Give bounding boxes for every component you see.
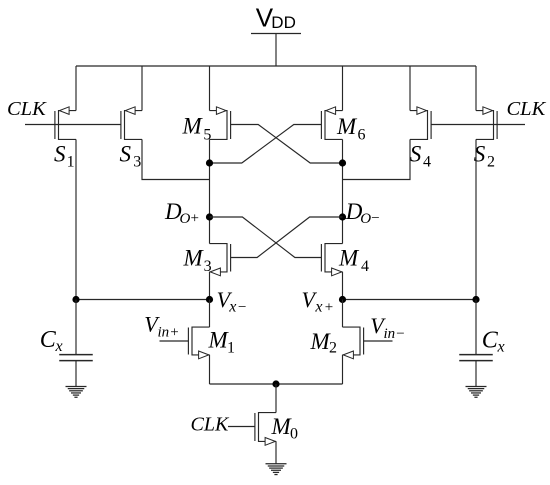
svg-text:O: O [360,211,371,227]
wire M2 source down to tail [342,355,344,384]
wire S1 drain down to Cx node [75,139,77,299]
svg-text:M: M [338,246,360,271]
transistor M1 NMOS [188,327,209,359]
ground below left Cx [66,387,87,398]
node Do+ [206,213,213,220]
label Do+ [164,199,199,227]
svg-text:0: 0 [290,426,298,443]
wire M6 drain / Do- column [342,139,344,243]
svg-text:S: S [120,142,132,167]
label Vin+ [144,312,178,341]
ground below right Cx [466,387,487,398]
svg-text:M: M [336,114,358,139]
wire CLK to S2,S4 gates [431,124,525,126]
svg-text:1: 1 [227,339,235,356]
wire Do+ to M4 gate [210,217,322,258]
node Vx+ junction [339,296,346,303]
wire M5 drain / Do+ column [209,139,211,243]
wire M1 source down to tail [209,355,211,384]
label S2 [474,142,495,171]
wire right cap to ground [475,361,477,387]
label CLK left [7,98,47,120]
transistor M5 PMOS [210,107,231,140]
wire S4 source to rail [409,66,411,111]
wire M3 source down to Vx- [209,272,211,300]
svg-text:in: in [158,325,170,341]
svg-text:4: 4 [423,154,431,171]
wire left Cx node to cap [75,300,77,355]
label CLK right [507,98,547,120]
wire Vin- to M2 gate [364,340,393,342]
ground below M0 [266,464,287,475]
transistor S3 PMOS [121,107,142,140]
wire VDD rail [76,65,476,67]
label M2 [310,329,338,357]
wire tail node [210,383,343,385]
transistor S1 PMOS [55,107,76,140]
wire M5 source to rail [209,66,211,111]
label Vx+ [302,287,334,316]
transistor S2 PMOS [476,107,497,140]
svg-text:+: + [191,211,199,227]
wire Vx+ to right Cx [343,299,477,301]
svg-text:C: C [40,327,57,353]
wire M6 source to rail [342,66,344,111]
svg-text:S: S [410,142,422,167]
svg-text:S: S [54,142,66,167]
svg-text:5: 5 [203,126,211,143]
svg-text:CLK: CLK [7,98,47,120]
wire Vin+ to M1 gate [160,340,189,342]
transistor M0 NMOS [255,412,276,445]
svg-text:6: 6 [358,127,366,144]
label M0 [271,414,299,443]
label VDD [256,3,296,33]
junction tail [272,380,279,387]
wire S2 drain down to Cx node [475,139,477,299]
transistor M2 NMOS [343,327,364,359]
label CLK bottom [191,413,230,435]
wire right Cx node to cap [475,300,477,355]
wire M0 source down [275,441,277,463]
capacitor Cx right [459,355,493,361]
transistor S4 PMOS [410,107,431,140]
svg-text:2: 2 [487,154,495,171]
junction M6 drain [339,159,346,166]
wire left cap to ground [75,361,77,387]
wire CLK to S1,S3 gates [25,124,121,126]
label Cx right [482,328,505,356]
transistor M6 PMOS [321,107,342,140]
svg-text:3: 3 [204,258,212,275]
wire M0 drain up [275,384,277,413]
wire S3 drain to Do+ column [142,139,210,179]
svg-text:CLK: CLK [507,98,547,120]
label M3 [183,246,212,276]
transistor M3 NMOS [210,243,231,276]
svg-text:in: in [384,326,396,342]
svg-text:x: x [55,338,63,355]
svg-text:CLK: CLK [191,413,230,435]
svg-text:C: C [482,328,499,354]
svg-text:+: + [170,325,178,341]
svg-text:M: M [183,246,205,271]
label Do- [345,199,380,227]
wire M6 gate to M5 drain [210,125,322,164]
label M1 [208,328,236,357]
label Vx- [217,287,247,316]
power symbol VDD [251,34,301,67]
wire S1 source to rail [75,66,77,111]
wire M5 gate to M6 drain [231,125,343,164]
label S4 [410,142,431,171]
wire S3 source to rail [141,66,143,111]
wire M1 drain up to Vx- [209,300,211,328]
label S1 [54,142,75,171]
wire S2 source to rail [475,66,477,111]
junction M5 drain [206,159,213,166]
svg-text:DD: DD [271,13,296,32]
svg-text:−: − [396,326,404,342]
svg-text:−: − [371,211,379,227]
node Do- [339,213,346,220]
label M5 [182,114,212,144]
label Vin- [370,313,404,342]
wire M2 drain up to Vx+ [342,300,344,328]
svg-text:x: x [314,299,322,316]
svg-text:M: M [182,114,204,139]
svg-text:1: 1 [67,154,75,171]
transistor M4 NMOS [321,243,342,276]
wire CLK to M0 gate [228,426,255,428]
svg-text:x: x [497,338,505,355]
svg-text:x: x [228,299,236,316]
wire Vx- to left Cx [76,299,210,301]
svg-text:2: 2 [329,340,337,357]
svg-text:4: 4 [361,258,369,275]
wire M3 gate to Do- [231,217,343,258]
label M6 [336,114,366,144]
label S3 [120,142,142,171]
node Vx- junction [206,296,213,303]
svg-text:−: − [238,300,246,316]
capacitor Cx left [59,355,93,361]
svg-text:+: + [325,300,333,316]
svg-text:O: O [180,211,191,227]
label M4 [338,246,369,276]
node left Cx junction [72,296,79,303]
svg-text:3: 3 [133,154,141,171]
wire S4 drain to Do- column [343,139,411,179]
label Cx left [40,327,63,355]
node right Cx junction [472,296,479,303]
wire M4 source down to Vx+ [342,272,344,300]
